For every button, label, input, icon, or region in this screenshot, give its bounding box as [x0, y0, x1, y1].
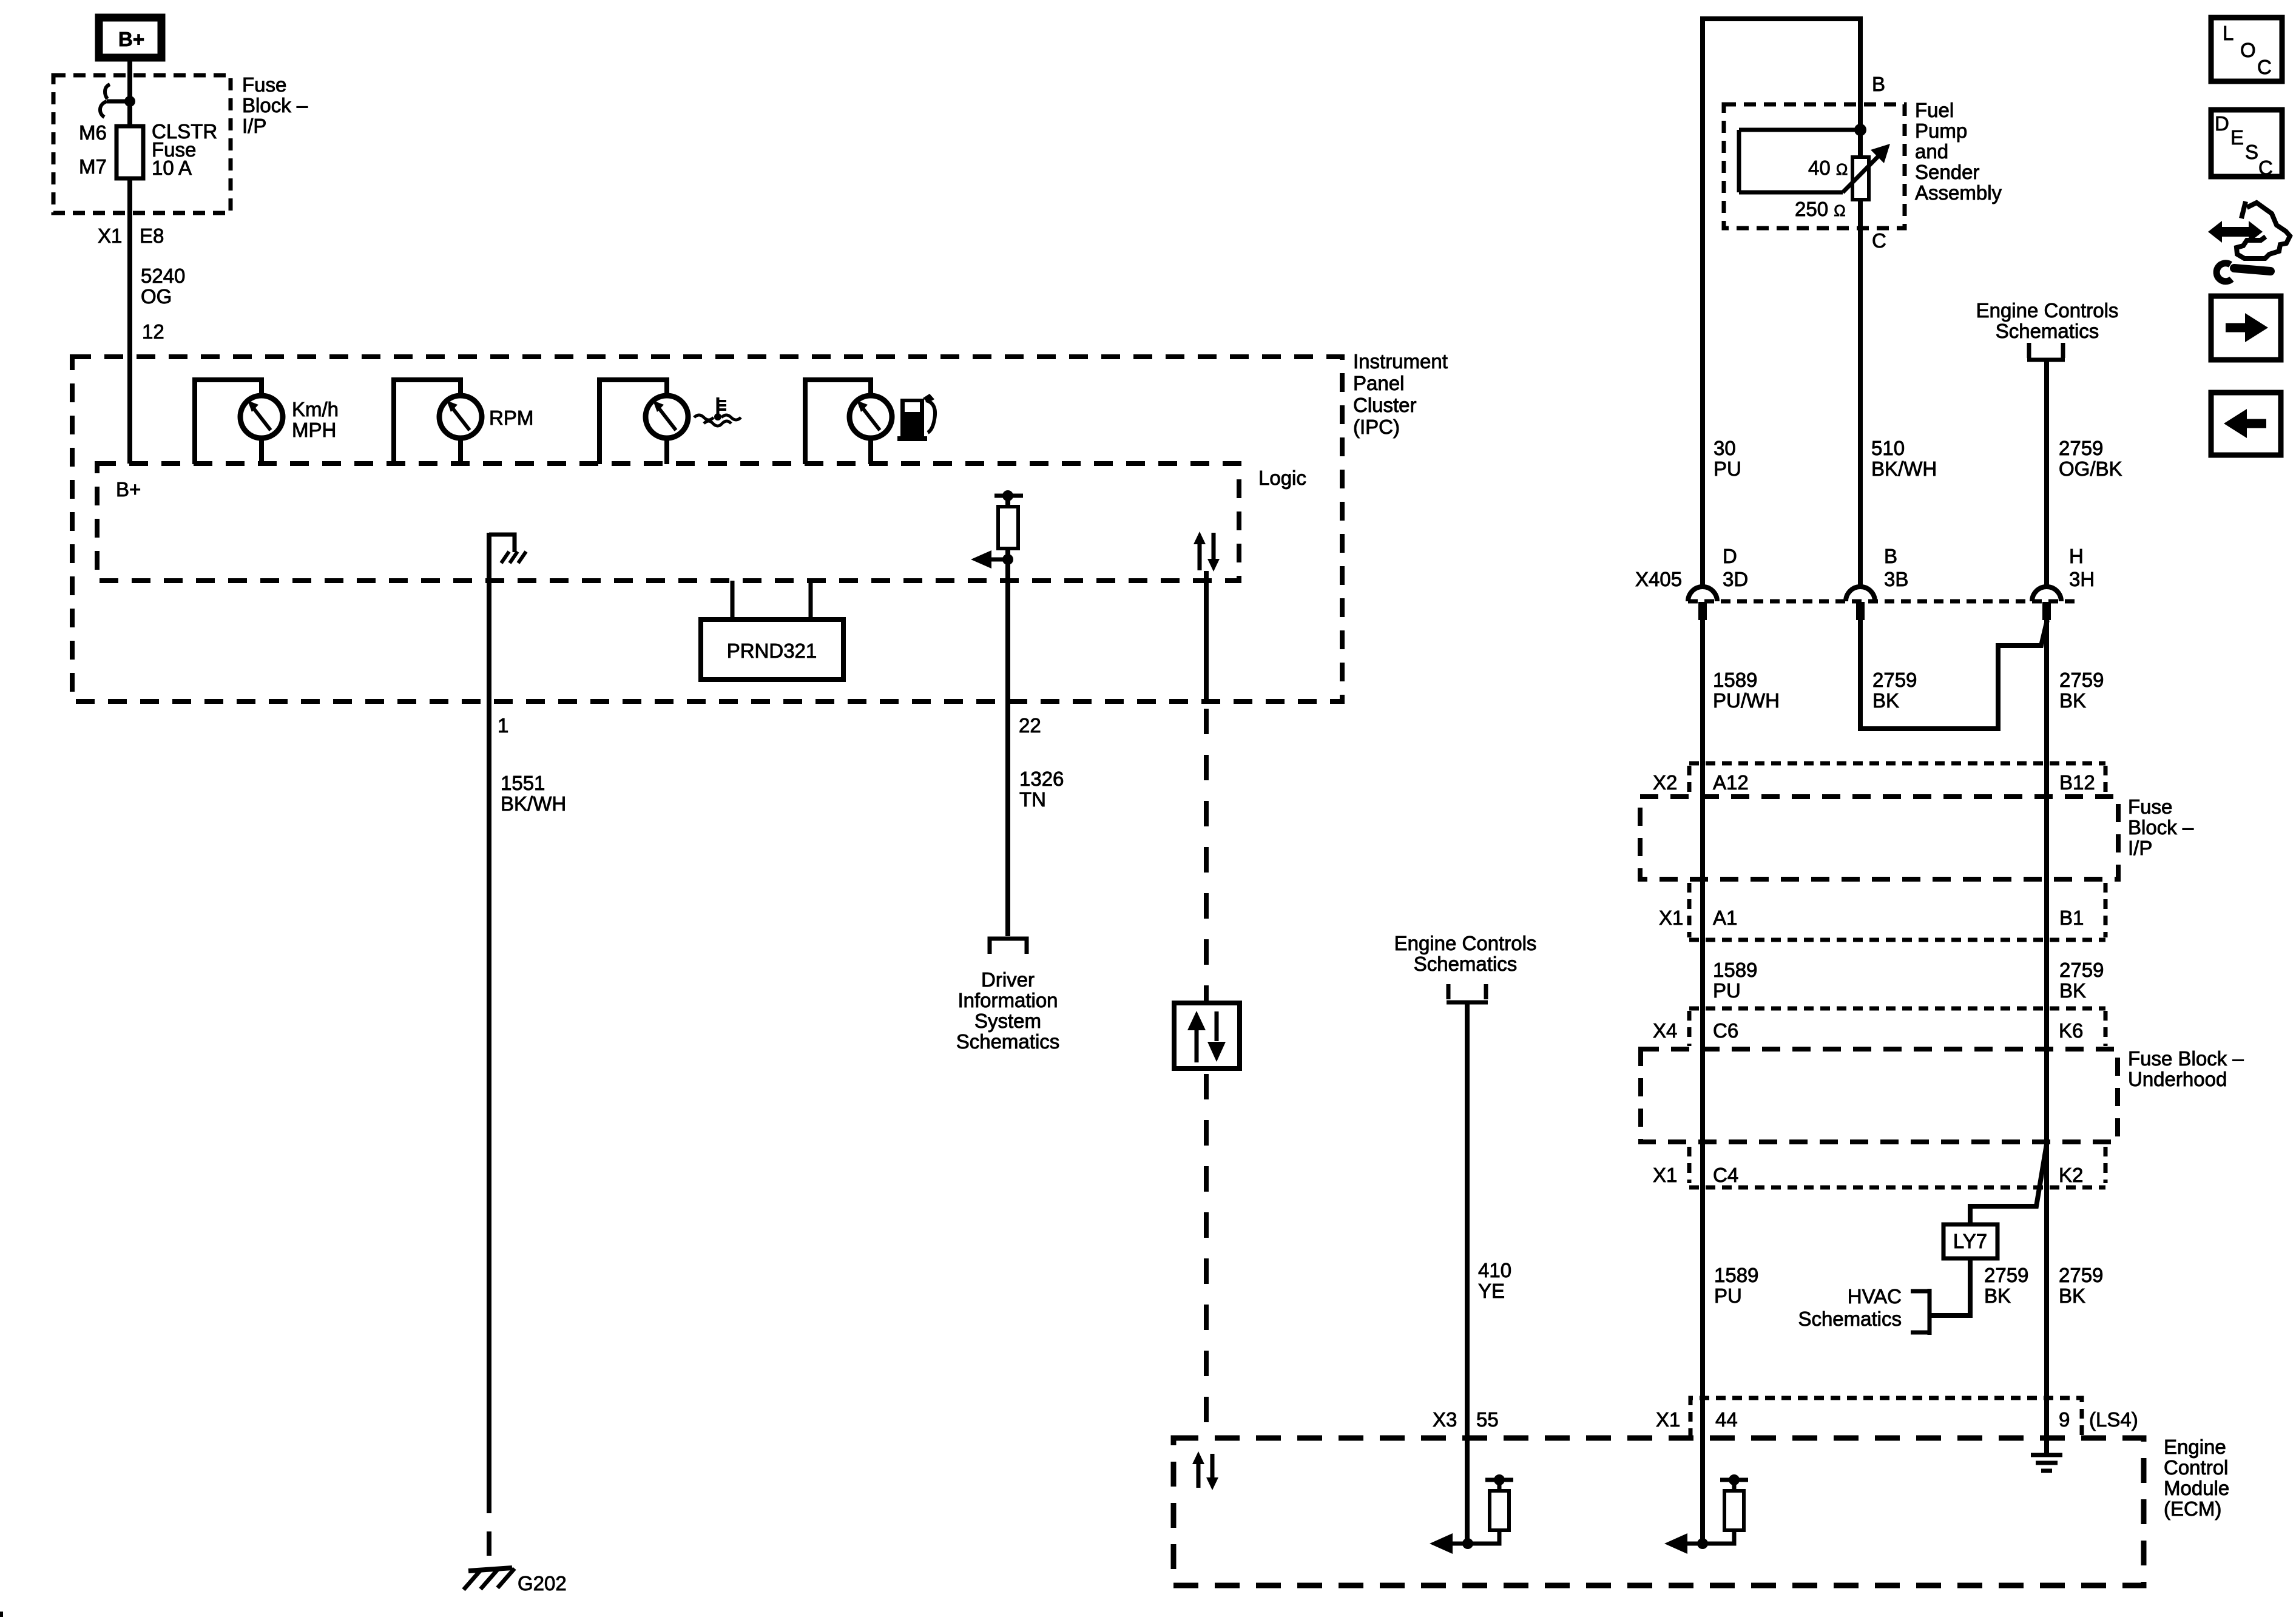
svg-text:C: C: [1872, 229, 1886, 252]
svg-text:40 Ω: 40 Ω: [1808, 157, 1848, 179]
svg-text:Fuse: Fuse: [2128, 795, 2172, 818]
svg-text:X1: X1: [1656, 1408, 1680, 1431]
svg-text:(IPC): (IPC): [1353, 416, 1400, 438]
svg-text:BK: BK: [2059, 689, 2086, 712]
svg-text:Engine Controls: Engine Controls: [1976, 299, 2119, 322]
svg-text:Schematics: Schematics: [1414, 953, 1518, 975]
svg-text:C6: C6: [1713, 1019, 1738, 1042]
svg-text:2759: 2759: [2059, 1264, 2103, 1286]
svg-text:RPM: RPM: [489, 407, 533, 429]
svg-text:K6: K6: [2059, 1019, 2083, 1042]
svg-text:Fuel: Fuel: [1915, 99, 1954, 121]
svg-text:3H: 3H: [2069, 568, 2095, 590]
svg-text:1551: 1551: [501, 772, 545, 794]
svg-text:1589: 1589: [1714, 1264, 1758, 1286]
svg-text:E: E: [2230, 126, 2244, 149]
svg-text:Information: Information: [957, 989, 1058, 1011]
svg-text:O: O: [2240, 39, 2256, 61]
svg-text:Schematics: Schematics: [1996, 320, 2099, 342]
svg-text:2759: 2759: [2059, 669, 2104, 691]
svg-text:HVAC: HVAC: [1848, 1285, 1902, 1308]
svg-text:Block –: Block –: [242, 94, 308, 116]
svg-text:LY7: LY7: [1953, 1230, 1987, 1252]
svg-text:Engine: Engine: [2164, 1436, 2226, 1458]
svg-text:Instrument: Instrument: [1353, 350, 1448, 373]
svg-text:X3: X3: [1433, 1408, 1457, 1431]
svg-text:410: 410: [1478, 1259, 1511, 1281]
svg-text:Cluster: Cluster: [1353, 394, 1417, 416]
svg-text:A12: A12: [1713, 771, 1749, 794]
svg-text:PU/WH: PU/WH: [1713, 689, 1780, 712]
svg-text:X2: X2: [1653, 771, 1677, 794]
svg-text:Schematics: Schematics: [1798, 1308, 1902, 1330]
svg-text:M7: M7: [79, 155, 107, 178]
svg-text:Panel: Panel: [1353, 372, 1404, 394]
svg-text:2759: 2759: [2059, 437, 2103, 459]
svg-text:I/P: I/P: [2128, 837, 2152, 859]
svg-text:D: D: [1723, 545, 1737, 567]
svg-text:YE: YE: [1478, 1280, 1505, 1302]
svg-text:3D: 3D: [1723, 568, 1748, 590]
svg-text:Driver: Driver: [981, 968, 1035, 991]
svg-text:X1: X1: [1659, 906, 1683, 929]
svg-text:44: 44: [1715, 1408, 1738, 1431]
svg-text:1326: 1326: [1019, 768, 1064, 790]
svg-text:TN: TN: [1019, 788, 1046, 811]
svg-text:G202: G202: [518, 1572, 567, 1595]
svg-text:X1: X1: [98, 224, 122, 247]
svg-text:BK: BK: [2059, 1284, 2085, 1307]
svg-text:B+: B+: [116, 478, 141, 501]
svg-text:PRND321: PRND321: [727, 640, 817, 662]
svg-text:1: 1: [498, 714, 508, 737]
svg-text:1589: 1589: [1713, 669, 1757, 691]
svg-text:250 Ω: 250 Ω: [1795, 198, 1846, 220]
svg-text:X1: X1: [1653, 1164, 1677, 1186]
svg-text:55: 55: [1476, 1408, 1499, 1431]
svg-text:Module: Module: [2164, 1477, 2229, 1499]
svg-text:Fuse Block –: Fuse Block –: [2128, 1047, 2244, 1070]
svg-text:22: 22: [1019, 714, 1041, 737]
svg-text:X4: X4: [1653, 1019, 1677, 1042]
svg-text:M6: M6: [79, 121, 107, 144]
svg-text:BK: BK: [1872, 689, 1899, 712]
svg-text:(LS4): (LS4): [2089, 1408, 2138, 1431]
svg-text:PU: PU: [1714, 1284, 1742, 1307]
svg-text:30: 30: [1714, 437, 1736, 459]
svg-text:B: B: [1884, 545, 1897, 567]
svg-text:BK: BK: [1984, 1284, 2011, 1307]
svg-text:1589: 1589: [1713, 959, 1757, 981]
svg-text:12: 12: [142, 320, 164, 343]
svg-text:OG/BK: OG/BK: [2059, 457, 2122, 480]
svg-text:Fuse: Fuse: [242, 73, 286, 96]
svg-text:Control: Control: [2164, 1456, 2228, 1479]
svg-text:X405: X405: [1635, 568, 1682, 590]
svg-text:C4: C4: [1713, 1164, 1738, 1186]
svg-text:Pump: Pump: [1915, 120, 1967, 142]
svg-text:5240: 5240: [141, 265, 185, 287]
svg-text:BK: BK: [2059, 979, 2086, 1002]
svg-text:B12: B12: [2059, 771, 2095, 794]
svg-text:9: 9: [2059, 1408, 2070, 1431]
svg-text:B: B: [1872, 73, 1885, 95]
svg-text:Underhood: Underhood: [2128, 1068, 2227, 1090]
svg-text:10 A: 10 A: [152, 157, 192, 179]
svg-text:Sender: Sender: [1915, 161, 1979, 183]
svg-text:MPH: MPH: [292, 419, 336, 441]
svg-text:3B: 3B: [1884, 568, 1908, 590]
svg-text:2759: 2759: [1984, 1264, 2028, 1286]
svg-text:BK/WH: BK/WH: [501, 792, 566, 815]
svg-text:Block –: Block –: [2128, 816, 2194, 839]
svg-text:(ECM): (ECM): [2164, 1497, 2221, 1520]
svg-text:S: S: [2245, 141, 2258, 163]
svg-text:Schematics: Schematics: [956, 1030, 1060, 1053]
svg-text:E8: E8: [140, 224, 164, 247]
svg-text:C: C: [2258, 157, 2273, 179]
svg-text:and: and: [1915, 140, 1948, 163]
svg-text:Km/h: Km/h: [292, 398, 339, 420]
svg-text:2759: 2759: [2059, 959, 2104, 981]
svg-text:L: L: [2223, 22, 2234, 44]
svg-text:510: 510: [1871, 437, 1905, 459]
svg-text:PU: PU: [1713, 979, 1741, 1002]
svg-text:A1: A1: [1713, 906, 1737, 929]
svg-text:K2: K2: [2059, 1164, 2083, 1186]
svg-text:2759: 2759: [1872, 669, 1917, 691]
svg-text:H: H: [2069, 545, 2084, 567]
svg-text:Assembly: Assembly: [1915, 181, 2002, 204]
svg-text:I/P: I/P: [242, 115, 266, 137]
svg-text:PU: PU: [1714, 457, 1741, 480]
svg-text:BK/WH: BK/WH: [1871, 457, 1937, 480]
svg-text:Engine Controls: Engine Controls: [1394, 932, 1537, 954]
svg-text:B1: B1: [2059, 906, 2084, 929]
svg-text:D: D: [2215, 112, 2229, 135]
svg-text:C: C: [2257, 56, 2272, 78]
svg-text:Logic: Logic: [1258, 467, 1306, 489]
svg-text:System: System: [974, 1010, 1041, 1032]
svg-text:B+: B+: [118, 28, 144, 50]
svg-text:OG: OG: [141, 285, 172, 308]
